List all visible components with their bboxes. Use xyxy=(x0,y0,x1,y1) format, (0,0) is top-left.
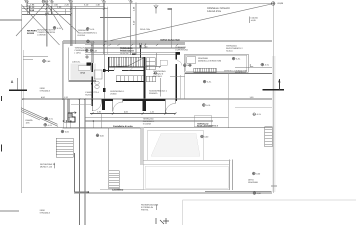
level symbols (circle-cross with label) xyxy=(43,26,264,194)
left horizontal y56.6 xyxy=(23,56,48,58)
wire top boundary line xyxy=(27,2,272,4)
entry dark blob xyxy=(91,83,93,85)
dimension bubbles top xyxy=(25,0,132,6)
driveway vertical x63.3 xyxy=(62,43,64,99)
door arc right wall xyxy=(177,61,182,66)
svg-text:A.SL: A.SL xyxy=(187,64,192,67)
right lines y67.3 xyxy=(235,66,272,68)
level s10 xyxy=(203,80,206,83)
svg-text:PIETRA: PIETRA xyxy=(141,209,149,212)
svg-text:0,00: 0,00 xyxy=(65,131,70,134)
section marker A left bar xyxy=(9,89,27,91)
svg-text:PLAV 2%: PLAV 2% xyxy=(120,52,128,55)
svg-text:RUSSIA: RUSSIA xyxy=(78,34,86,37)
driveway vertical x68.3 xyxy=(67,48,69,81)
section marker A right bar xyxy=(263,89,285,91)
wire dim line 1 xyxy=(22,5,105,7)
corridor closet rect xyxy=(160,60,167,65)
dim ticks above y127.7 xyxy=(63,122,93,128)
bagno pier 1 xyxy=(103,69,105,72)
wc fixture xyxy=(95,81,99,84)
shower rect xyxy=(94,70,102,79)
wire vertical x131 xyxy=(130,3,132,55)
svg-text:MURO H.120: MURO H.120 xyxy=(40,165,53,168)
svg-text:2,48: 2,48 xyxy=(46,60,51,63)
entry terrace gray bar xyxy=(68,80,96,82)
wire dim line 4 xyxy=(22,14,72,16)
level s12 xyxy=(253,113,256,116)
level s13 xyxy=(45,117,48,120)
level s17 pool xyxy=(201,135,204,138)
driveway vertical x62.4 xyxy=(61,43,63,99)
svg-text:A VERDE: A VERDE xyxy=(37,34,46,37)
entrance step lines xyxy=(64,113,72,122)
big top circle xyxy=(271,2,275,6)
dark dash y53.8 xyxy=(132,53,135,55)
vertical x180.7 xyxy=(180,75,182,99)
svg-text:A: A xyxy=(11,80,14,84)
svg-text:0,00: 0,00 xyxy=(256,173,261,176)
stair left wall xyxy=(108,57,110,72)
svg-text:SCALA: SCALA xyxy=(226,50,233,53)
wire dim line 3 xyxy=(22,10,72,12)
cabinets vertical right of wall xyxy=(146,58,155,82)
bubble x45 xyxy=(42,0,45,6)
svg-text:A.SL: A.SL xyxy=(236,58,241,61)
svg-text:1,86 B.SL: 1,86 B.SL xyxy=(72,60,80,63)
level s9 xyxy=(261,63,264,66)
counter dark bottom edge xyxy=(116,81,144,83)
bottom small marks xyxy=(156,218,169,224)
section marker A right stem xyxy=(279,79,281,90)
strip tick xyxy=(271,185,277,187)
faint line y107.3 right xyxy=(235,106,272,108)
planter outer rect xyxy=(144,165,230,190)
level s2b xyxy=(87,40,90,43)
door arc 1 xyxy=(92,102,101,111)
svg-text:A.SL: A.SL xyxy=(207,81,212,84)
garden roof outer rect xyxy=(185,54,248,72)
entry terrace white box xyxy=(78,66,90,71)
svg-text:CUCINA 1: CUCINA 1 xyxy=(153,75,163,78)
svg-text:LIVING: LIVING xyxy=(110,93,117,96)
level s15 xyxy=(61,130,64,133)
terrace long line y41 xyxy=(63,41,272,43)
door arc 3 xyxy=(165,103,175,113)
pavimentazione tick xyxy=(155,205,157,211)
jamb vertical x101.6 xyxy=(101,114,103,128)
tree symbol xyxy=(154,5,158,14)
svg-text:TERRA SCALE SUB: TERRA SCALE SUB xyxy=(160,39,180,42)
svg-text:MANDELLA: MANDELLA xyxy=(235,71,246,74)
pool retaining verticals xyxy=(141,128,143,165)
flag bracket x168-172 xyxy=(168,8,173,10)
planter inner rect xyxy=(145,166,228,188)
svg-text:0,00: 0,00 xyxy=(204,136,209,139)
wire vertical x76 xyxy=(75,6,77,44)
dim verticals x139.8 x141.8 xyxy=(140,43,142,48)
dark blob terrazzo copertura xyxy=(175,52,180,55)
terrace line y43 xyxy=(63,42,185,44)
right wall x176 xyxy=(175,52,177,100)
dim band line c xyxy=(85,52,180,54)
dim band ticks xyxy=(91,44,178,46)
svg-text:A.SL: A.SL xyxy=(90,28,95,31)
bagno wall x104 xyxy=(103,53,105,100)
leader diagonal left leg xyxy=(16,3,46,36)
dim band dark bar xyxy=(139,45,141,58)
svg-text:PRANZO: PRANZO xyxy=(149,92,158,95)
dim band line d xyxy=(85,54,180,56)
svg-text:SI JARDI: SI JARDI xyxy=(143,123,152,126)
section marker A left stem xyxy=(16,78,18,90)
short vertical x145.8 xyxy=(145,43,147,49)
entrance stair 3 xyxy=(56,138,73,157)
L connector dot xyxy=(88,191,90,193)
wire vertical x48 xyxy=(47,3,49,47)
right lines y73.5 xyxy=(185,73,273,75)
garden line y191.5 xyxy=(205,191,272,193)
building left wall xyxy=(91,63,93,106)
level s6 xyxy=(154,72,156,74)
svg-text:A.SL: A.SL xyxy=(48,124,53,127)
level s7b xyxy=(189,64,191,66)
right stair 5 xyxy=(265,127,273,147)
boundary vertical left b xyxy=(22,50,24,128)
svg-text:A.SL: A.SL xyxy=(49,118,54,121)
svg-text:( 15% ): ( 15% ) xyxy=(75,52,82,55)
svg-text:GIARDINO: GIARDINO xyxy=(248,181,258,184)
level s14 xyxy=(44,123,47,126)
level s18 orto upper xyxy=(252,172,255,175)
wire dim line 2 xyxy=(22,8,109,10)
level s3b xyxy=(90,49,92,51)
wire vertical x104 xyxy=(103,3,105,54)
y99 ticks xyxy=(22,98,85,100)
wire vertical x46 xyxy=(45,3,47,47)
leader diagonal right leg 1 xyxy=(46,3,63,30)
level s8 xyxy=(232,57,235,60)
wall vertical x108.6 xyxy=(108,128,110,189)
level s2 xyxy=(86,27,89,30)
wire vertical x71 xyxy=(70,3,72,46)
level s4 xyxy=(43,60,46,63)
wire vertical x52 xyxy=(51,6,53,14)
building left wall upper thin xyxy=(91,43,93,63)
level s1 xyxy=(53,26,56,29)
wire vertical x132.5 xyxy=(135,3,137,55)
main stair 1 xyxy=(108,57,144,67)
svg-text:FALDA 25%: FALDA 25% xyxy=(207,10,222,13)
entrance steps xyxy=(68,113,75,122)
left dark pier xyxy=(87,62,92,65)
bottom wall segments xyxy=(91,99,177,101)
flag vertical x171.8 xyxy=(171,9,173,48)
svg-text:SCOLLEGAMENTO 2: SCOLLEGAMENTO 2 xyxy=(197,125,219,128)
svg-text:A.SL: A.SL xyxy=(206,104,211,107)
dim line y113.5 xyxy=(90,113,175,115)
garden roof inner box xyxy=(187,57,196,64)
svg-text:+6,85: +6,85 xyxy=(277,2,284,5)
bottom-left short line xyxy=(0,210,19,212)
left edge mark xyxy=(1,96,3,101)
svg-text:1,35: 1,35 xyxy=(133,6,136,11)
door jamb lines 1 xyxy=(92,101,101,111)
thin line y117.2 xyxy=(85,116,228,118)
line y189.3 left xyxy=(100,188,144,190)
svg-text:N.1023: N.1023 xyxy=(27,32,35,35)
L connector xyxy=(75,153,89,192)
door arcs on y70.5 xyxy=(114,65,133,71)
pool inner trapezoid xyxy=(151,134,200,157)
tick dots xyxy=(63,120,93,122)
terrace split vertical x184.6 xyxy=(184,74,186,100)
dim line y66.6 kitchen xyxy=(145,66,161,68)
thin line y121 xyxy=(85,120,213,122)
tiny texts xyxy=(11,0,284,215)
svg-text:B+15: B+15 xyxy=(81,71,86,74)
line y193 xyxy=(74,192,272,194)
boundary vertical left xyxy=(21,4,23,193)
bubble x52 xyxy=(51,1,53,7)
small stair 4 xyxy=(109,171,119,189)
level s3 xyxy=(85,49,88,52)
roof diagonal long xyxy=(104,4,272,42)
svg-text:STRADALE: STRADALE xyxy=(40,90,51,93)
wire vertical x29.5 xyxy=(29,6,31,15)
level s11 xyxy=(202,104,205,107)
level s5 xyxy=(86,56,88,58)
svg-text:Castelletto di sotto: Castelletto di sotto xyxy=(113,125,133,128)
bubble x46.6 xyxy=(45,0,48,3)
left edge dash lower xyxy=(0,145,2,152)
leader diagonal right leg 2 xyxy=(46,3,78,33)
corridor vertical x156 xyxy=(155,53,157,67)
door arc 2 xyxy=(113,102,123,112)
wire vertical x27.3 xyxy=(26,2,28,15)
wire vertical x73 xyxy=(72,3,74,46)
level s16 xyxy=(96,134,99,137)
svg-text:Castelletto: Castelletto xyxy=(112,189,124,192)
svg-text:TERRAZZO: TERRAZZO xyxy=(120,47,133,50)
porch line y104.4 xyxy=(71,103,92,105)
level s7 xyxy=(183,64,186,67)
garden roof inner rect xyxy=(186,55,247,71)
svg-text:MANDELLA VERDE HDM: MANDELLA VERDE HDM xyxy=(198,60,222,63)
bubble x104 xyxy=(103,1,106,7)
dim band line b xyxy=(85,47,185,49)
wall x144.5 xyxy=(144,57,146,100)
svg-text:10%: 10% xyxy=(26,122,30,125)
left horizontal y59.6 xyxy=(23,59,33,61)
deck verticals right xyxy=(230,160,233,191)
driveway vertical pair a xyxy=(79,99,81,225)
bubble x131 xyxy=(130,1,132,3)
section vertical line xyxy=(272,5,274,193)
driveway diagonal pair xyxy=(21,108,58,127)
bottom big rect top xyxy=(183,199,357,201)
bubble x71 xyxy=(70,0,73,6)
driveway vertical pair b xyxy=(84,99,86,225)
door jamb lines 2 xyxy=(113,101,123,112)
door jamb lines 3 xyxy=(165,101,175,114)
bottom wall piers xyxy=(102,100,146,112)
svg-text:A: A xyxy=(278,80,281,84)
line y76.3 corridor bottom xyxy=(170,75,185,77)
partition x160.8 xyxy=(160,78,162,97)
entry terrace light fill xyxy=(71,64,97,80)
left edge line y20 xyxy=(0,19,22,21)
svg-text:RIF.PART.: RIF.PART. xyxy=(27,30,37,33)
bagno pier 2 xyxy=(103,88,105,92)
dim band line a xyxy=(85,44,185,46)
svg-text:PEND. 35%: PEND. 35% xyxy=(140,28,150,31)
svg-text:5,10: 5,10 xyxy=(133,20,136,25)
svg-text:STRADALE: STRADALE xyxy=(40,212,51,215)
interior wall y70.5 xyxy=(104,70,144,72)
pool deck line y160.3 xyxy=(143,159,231,161)
long line y127.7 xyxy=(22,127,272,129)
pool outer rect xyxy=(148,130,204,160)
svg-text:2,48: 2,48 xyxy=(93,49,98,52)
wire segment y17.5 xyxy=(100,17,131,19)
svg-text:A.SL: A.SL xyxy=(257,113,262,116)
svg-text:A.SL: A.SL xyxy=(265,64,270,67)
bubble x27 xyxy=(25,0,28,6)
scollegamento2 text box xyxy=(194,116,212,127)
colmo flag line xyxy=(249,17,251,24)
svg-text:COPERTURA: COPERTURA xyxy=(175,49,188,52)
stair 2 xyxy=(194,68,217,73)
level s19 orto lower xyxy=(253,192,256,195)
bottom big rect left xyxy=(182,200,184,225)
entrance verticals xyxy=(64,99,70,122)
connector near s9 xyxy=(250,64,253,67)
kitchen counter horizontal xyxy=(116,76,144,82)
svg-text:0,00: 0,00 xyxy=(257,192,262,195)
plot diagonal A xyxy=(22,5,60,45)
svg-text:0,00: 0,00 xyxy=(100,134,105,137)
wire vertical x65.7 xyxy=(65,9,67,15)
second line y128.6 xyxy=(62,128,141,130)
bidet fixture xyxy=(95,85,99,88)
building bottom thin line y98.2 xyxy=(22,98,272,100)
dim ticks top xyxy=(26,5,105,15)
vertical x228.3 xyxy=(227,74,229,128)
wire vertical x108 xyxy=(107,6,109,54)
stair bottom dark line xyxy=(108,66,144,68)
svg-text:ROSSA: ROSSA xyxy=(85,93,93,96)
section cut light strip xyxy=(272,56,275,192)
entrance arrow xyxy=(71,112,76,114)
dim ticks y113.5 xyxy=(92,113,177,115)
svg-text:+6,85: +6,85 xyxy=(251,19,257,22)
